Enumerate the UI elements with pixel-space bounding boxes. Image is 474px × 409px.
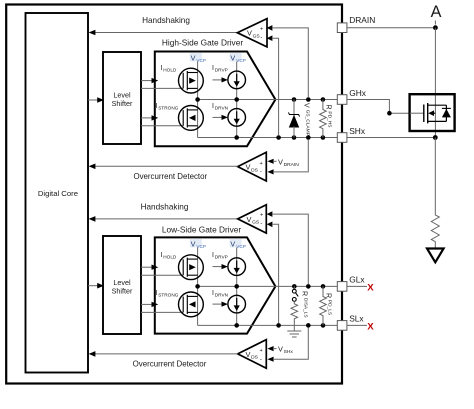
wire VDS LS minus input from SLx bbox=[267, 328, 308, 362]
wire VVCP column through IDRVP and IDRVN HS bbox=[236, 62, 238, 138]
svg-text:I: I bbox=[212, 252, 214, 259]
resistor RPD_HS bbox=[320, 100, 333, 138]
svg-text:SHx: SHx bbox=[349, 126, 366, 136]
svg-text:STRONG: STRONG bbox=[158, 292, 178, 297]
wire node A column down bbox=[434, 28, 436, 138]
wire digital core to LS level shifter bbox=[88, 283, 104, 289]
wire VGS LS minus input from SLx bbox=[267, 222, 279, 324]
wire gate line ISTRONG LS bbox=[141, 311, 183, 313]
digital core block bbox=[26, 13, 89, 373]
svg-text:V: V bbox=[247, 29, 252, 38]
low-side gate driver pentagon bbox=[155, 224, 276, 333]
switch and resistor RDISA_LS to ground bbox=[291, 286, 308, 330]
node dots on GHx rail bbox=[195, 97, 325, 102]
svg-text:GS: GS bbox=[252, 220, 260, 226]
svg-text:-: - bbox=[260, 221, 262, 227]
op-amp comparator VGS high-side bbox=[237, 19, 267, 47]
svg-text:Handshaking: Handshaking bbox=[141, 203, 189, 212]
svg-text:DS: DS bbox=[251, 355, 259, 361]
resistor RPD_LS bbox=[320, 286, 333, 325]
pin SHx bbox=[337, 126, 366, 143]
pin DRAIN bbox=[337, 15, 375, 32]
wire GHx to external FET gate bbox=[347, 100, 410, 116]
transistor IHOLD HS bbox=[161, 65, 204, 93]
svg-text:I: I bbox=[156, 103, 158, 110]
svg-text:X: X bbox=[367, 283, 374, 294]
svg-text:I: I bbox=[212, 103, 214, 110]
power ground arrow symbol bbox=[427, 249, 444, 263]
pin GHx bbox=[337, 88, 366, 104]
svg-text:Shifter: Shifter bbox=[112, 99, 133, 108]
svg-text:PD_LS: PD_LS bbox=[326, 300, 332, 315]
svg-text:Overcurrent Detector: Overcurrent Detector bbox=[133, 360, 207, 369]
wire level shifter arrow 1 into driver LS bbox=[141, 265, 158, 270]
current source IDRVP HS bbox=[212, 65, 246, 89]
current source IDRVP LS bbox=[212, 252, 246, 276]
svg-text:Digital Core: Digital Core bbox=[38, 189, 78, 198]
svg-text:I: I bbox=[161, 65, 163, 72]
wire level shifter arrow 2 into driver HS bbox=[141, 115, 158, 120]
level shifter LS bbox=[103, 236, 141, 334]
wire VGS HS plus input from GHx bbox=[267, 25, 309, 97]
svg-text:+: + bbox=[260, 213, 263, 219]
transistor ISTRONG HS bbox=[156, 103, 204, 130]
wire VDRAIN reference input bbox=[267, 157, 299, 168]
svg-text:V: V bbox=[278, 345, 283, 354]
wire overcurrent detector HS bbox=[89, 164, 238, 182]
svg-text:DRVP: DRVP bbox=[215, 68, 228, 73]
node VVCP label 1 LS bbox=[190, 239, 206, 249]
svg-text:DS: DS bbox=[251, 167, 259, 173]
svg-text:V: V bbox=[230, 53, 235, 62]
wire VGS LS plus input from GLx bbox=[267, 211, 309, 284]
svg-text:GLx: GLx bbox=[349, 275, 365, 285]
svg-text:GS_CLAMP: GS_CLAMP bbox=[304, 110, 310, 136]
resistor load on SHx node bbox=[431, 138, 439, 249]
svg-text:STRONG: STRONG bbox=[158, 106, 178, 111]
outer device boundary box bbox=[6, 5, 342, 384]
node dots on SHx rail bbox=[234, 135, 325, 140]
svg-text:R: R bbox=[301, 291, 308, 296]
svg-text:V: V bbox=[278, 157, 283, 166]
pin SLx bbox=[337, 314, 364, 331]
wire level shifter arrow 2 into driver LS bbox=[141, 302, 158, 307]
high-side gate driver pentagon bbox=[155, 38, 276, 147]
wire SLx stub to X bbox=[347, 322, 374, 333]
svg-text:GS: GS bbox=[253, 33, 261, 39]
wire VVCP column through IDRVP and IDRVN LS bbox=[236, 248, 238, 326]
svg-text:SLx: SLx bbox=[349, 314, 364, 324]
wire DRAIN to node A bbox=[347, 25, 438, 30]
svg-text:-: - bbox=[260, 35, 262, 41]
svg-text:Handshaking: Handshaking bbox=[142, 16, 190, 25]
ground symbol bbox=[287, 331, 301, 337]
wire VSHx reference input bbox=[267, 345, 293, 356]
svg-text:HOLD: HOLD bbox=[163, 68, 177, 73]
svg-text:A: A bbox=[431, 3, 442, 21]
svg-text:+: + bbox=[260, 161, 263, 167]
svg-text:DRAIN: DRAIN bbox=[284, 162, 300, 168]
svg-text:V: V bbox=[303, 103, 310, 108]
op-amp comparator VDS high-side overcurrent bbox=[238, 152, 267, 181]
wire SHx rail bbox=[198, 137, 338, 139]
wire GHx rail bbox=[198, 99, 338, 101]
wire GLx stub to X bbox=[347, 283, 374, 294]
wire SLx rail bbox=[198, 324, 338, 326]
svg-text:DRVN: DRVN bbox=[215, 292, 228, 297]
svg-text:DRVP: DRVP bbox=[215, 254, 228, 259]
svg-text:VCP: VCP bbox=[236, 244, 246, 249]
node VVCP label 2 LS bbox=[230, 239, 246, 249]
wire VVCP column through IHOLD and ISTRONG LS bbox=[197, 248, 199, 326]
svg-text:GHx: GHx bbox=[349, 88, 367, 98]
wire GLx rail bbox=[198, 285, 338, 287]
svg-text:HOLD: HOLD bbox=[163, 254, 177, 259]
svg-text:VCP: VCP bbox=[236, 58, 246, 63]
svg-text:Low-Side Gate Driver: Low-Side Gate Driver bbox=[162, 224, 242, 234]
svg-text:+: + bbox=[260, 26, 263, 32]
external power MOSFET Q box bbox=[410, 94, 455, 131]
zener diode VGS_CLAMP bbox=[288, 100, 310, 138]
svg-text:V: V bbox=[246, 163, 251, 172]
svg-text:-: - bbox=[260, 357, 262, 363]
node dots on GLx rail bbox=[195, 284, 325, 289]
node VVCP label 2 HS bbox=[230, 53, 246, 63]
current source IDRVN LS bbox=[212, 290, 246, 313]
svg-text:I: I bbox=[212, 65, 214, 72]
level shifter HS bbox=[103, 52, 141, 144]
node VVCP label 1 HS bbox=[190, 53, 206, 63]
svg-text:Overcurrent Detector: Overcurrent Detector bbox=[133, 172, 207, 181]
wire handshaking HS bbox=[89, 16, 238, 36]
current source IDRVN HS bbox=[212, 103, 246, 126]
transistor ISTRONG LS bbox=[156, 290, 204, 317]
node A label bbox=[431, 3, 442, 24]
wire gate line ISTRONG HS bbox=[141, 125, 183, 127]
svg-text:V: V bbox=[247, 215, 252, 224]
wire gate line IHOLD LS bbox=[141, 274, 183, 276]
wire digital core to HS level shifter bbox=[88, 97, 104, 103]
op-amp comparator VGS low-side bbox=[238, 205, 267, 233]
svg-text:V: V bbox=[246, 350, 251, 359]
svg-text:SHx: SHx bbox=[284, 349, 294, 355]
node dots on SLx rail bbox=[234, 323, 325, 328]
svg-text:R: R bbox=[325, 293, 332, 298]
svg-text:R: R bbox=[325, 105, 332, 110]
svg-text:V: V bbox=[191, 239, 196, 248]
svg-text:DRVN: DRVN bbox=[215, 106, 228, 111]
svg-text:DISA_LS: DISA_LS bbox=[302, 298, 308, 318]
op-amp comparator VDS low-side overcurrent bbox=[238, 340, 267, 369]
transistor IHOLD LS bbox=[161, 252, 204, 280]
svg-text:Shifter: Shifter bbox=[112, 286, 133, 295]
wire VVCP column through IHOLD and ISTRONG HS bbox=[197, 62, 199, 138]
pin GLx bbox=[337, 275, 365, 292]
wire level shifter arrow 1 into driver HS bbox=[141, 78, 158, 83]
svg-text:V: V bbox=[191, 53, 196, 62]
svg-text:V: V bbox=[230, 239, 235, 248]
external power MOSFET symbol bbox=[410, 103, 451, 123]
svg-text:X: X bbox=[367, 322, 374, 333]
svg-text:I: I bbox=[161, 252, 163, 259]
wire overcurrent detector LS bbox=[89, 351, 238, 369]
svg-text:+: + bbox=[260, 348, 263, 354]
wire VGS HS minus input from SHx bbox=[267, 35, 279, 135]
wire SHx to external FET source bbox=[347, 135, 438, 140]
wire gate line IHOLD HS bbox=[141, 87, 183, 89]
svg-text:High-Side Gate Driver: High-Side Gate Driver bbox=[162, 38, 243, 48]
svg-text:-: - bbox=[260, 170, 262, 176]
svg-text:PD_HS: PD_HS bbox=[326, 111, 332, 127]
svg-text:DRAIN: DRAIN bbox=[349, 15, 375, 25]
svg-text:I: I bbox=[212, 290, 214, 297]
svg-text:I: I bbox=[156, 290, 158, 297]
wire VDS HS minus input from SHx bbox=[267, 140, 308, 175]
wire handshaking LS bbox=[89, 203, 238, 222]
